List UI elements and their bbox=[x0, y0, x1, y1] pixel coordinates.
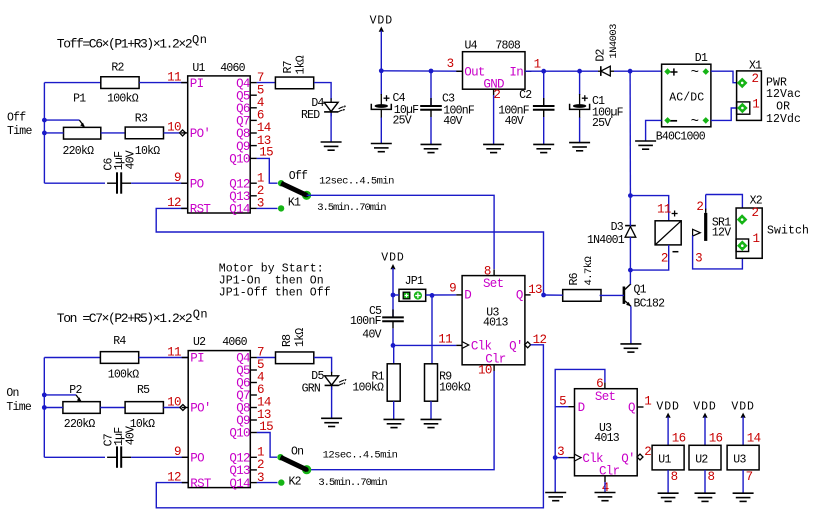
svg-text:3: 3 bbox=[695, 251, 702, 265]
node junction bbox=[541, 293, 546, 298]
svg-text:On: On bbox=[291, 446, 303, 459]
svg-text:14: 14 bbox=[747, 432, 761, 446]
svg-text:10: 10 bbox=[167, 395, 181, 409]
label K2 On bbox=[291, 446, 303, 459]
svg-text:D: D bbox=[464, 289, 471, 303]
wire bbox=[544, 294, 563, 296]
svg-text:C4: C4 bbox=[393, 92, 406, 105]
wire bbox=[579, 118, 581, 143]
label On Time bbox=[6, 387, 31, 414]
svg-text:K2: K2 bbox=[289, 476, 302, 489]
svg-text:VDD: VDD bbox=[656, 401, 679, 414]
svg-text:4013: 4013 bbox=[483, 316, 508, 329]
svg-text:9: 9 bbox=[174, 445, 181, 459]
svg-text:Set: Set bbox=[595, 390, 616, 404]
node junction bbox=[628, 268, 633, 273]
connector X1 bbox=[737, 59, 763, 120]
svg-text:Off: Off bbox=[289, 170, 308, 183]
wire bbox=[393, 344, 456, 346]
svg-text:B40C1000: B40C1000 bbox=[656, 131, 706, 144]
label 3.5min..70min bbox=[318, 477, 387, 489]
svg-text:U4: U4 bbox=[465, 39, 478, 52]
wire bbox=[555, 406, 568, 408]
svg-text:RST: RST bbox=[190, 203, 212, 217]
ground bbox=[321, 142, 342, 150]
svg-text:100nF: 100nF bbox=[350, 315, 382, 328]
wire bbox=[156, 345, 543, 508]
power block U2 (VDD/GND pins) bbox=[689, 401, 723, 502]
diode D2 1N4003 bbox=[595, 24, 621, 76]
wire bbox=[393, 345, 395, 363]
svg-text:11: 11 bbox=[167, 70, 181, 84]
bridge rectifier D1 AC/DC bbox=[662, 52, 711, 130]
ground bbox=[569, 143, 590, 151]
svg-text:JP1-Off then Off: JP1-Off then Off bbox=[219, 287, 331, 300]
relay coil SR1 bbox=[655, 211, 681, 252]
svg-text:10kΩ: 10kΩ bbox=[135, 145, 160, 158]
ground bbox=[533, 144, 554, 152]
svg-text:25V: 25V bbox=[393, 115, 412, 128]
svg-text:BC182: BC182 bbox=[634, 297, 666, 310]
svg-text:12: 12 bbox=[167, 470, 181, 484]
svg-text:4060: 4060 bbox=[222, 336, 247, 349]
svg-text:Q10: Q10 bbox=[229, 427, 250, 441]
svg-text:1: 1 bbox=[534, 57, 541, 71]
wire bbox=[309, 371, 494, 470]
svg-text:Q: Q bbox=[516, 289, 523, 303]
svg-text:C2: C2 bbox=[519, 89, 532, 102]
wire bbox=[630, 245, 668, 270]
wire bbox=[705, 195, 707, 210]
pin numbers SR1 bbox=[695, 200, 703, 265]
wire bbox=[380, 118, 382, 144]
LED D4 bbox=[301, 97, 346, 122]
svg-text:Qn: Qn bbox=[193, 307, 208, 321]
svg-text:RED: RED bbox=[301, 109, 320, 122]
LED D5 bbox=[302, 370, 347, 396]
node junction bbox=[391, 343, 396, 348]
wire bbox=[314, 83, 331, 100]
label K1 bbox=[288, 196, 301, 209]
pin numbers U3b bbox=[557, 377, 651, 495]
power VDD symbol bbox=[370, 15, 393, 71]
svg-text:12Vdc: 12Vdc bbox=[766, 113, 801, 126]
wire bbox=[44, 357, 100, 359]
ground bbox=[421, 144, 442, 152]
svg-text:8: 8 bbox=[484, 264, 491, 278]
wire bbox=[331, 387, 333, 419]
resistor R4 bbox=[100, 335, 139, 382]
svg-text:Qn: Qn bbox=[192, 33, 207, 47]
svg-text:Set: Set bbox=[483, 277, 504, 291]
svg-text:Toff=C6×(P1+R3)×1.2×2: Toff=C6×(P1+R3)×1.2×2 bbox=[57, 37, 192, 52]
svg-text:220kΩ: 220kΩ bbox=[63, 145, 95, 158]
svg-text:U2: U2 bbox=[695, 454, 708, 467]
svg-text:2: 2 bbox=[644, 445, 651, 459]
label K2 bbox=[289, 476, 302, 489]
svg-text:Time: Time bbox=[6, 401, 31, 414]
wire bbox=[706, 195, 743, 216]
ground bbox=[545, 493, 566, 501]
resistor R8 bbox=[276, 328, 314, 364]
wire bbox=[525, 70, 598, 72]
svg-text:16: 16 bbox=[709, 432, 723, 446]
svg-text:1: 1 bbox=[644, 395, 651, 409]
svg-text:Out: Out bbox=[464, 65, 485, 79]
wire bbox=[543, 117, 545, 144]
svg-text:9: 9 bbox=[174, 171, 181, 185]
svg-text:9: 9 bbox=[449, 281, 456, 295]
svg-text:~: ~ bbox=[691, 65, 699, 81]
svg-text:220kΩ: 220kΩ bbox=[64, 418, 96, 431]
svg-text:R4: R4 bbox=[113, 335, 126, 348]
wire bbox=[314, 358, 332, 373]
power block U1 (VDD/GND pins) bbox=[652, 401, 686, 502]
svg-text:25V: 25V bbox=[592, 117, 611, 130]
IC U1 4060 bbox=[181, 62, 257, 217]
svg-text:VDD: VDD bbox=[381, 252, 404, 265]
resistor R5 bbox=[125, 384, 163, 431]
svg-text:U2: U2 bbox=[193, 336, 206, 349]
svg-text:11: 11 bbox=[438, 333, 452, 347]
node junction bbox=[391, 293, 435, 298]
node junction bbox=[628, 193, 633, 198]
svg-text:1N4001: 1N4001 bbox=[587, 234, 625, 247]
pin numbers relay coil bbox=[657, 202, 671, 265]
wire bbox=[44, 182, 105, 184]
svg-text:1: 1 bbox=[752, 98, 759, 112]
svg-text:R3: R3 bbox=[135, 113, 148, 126]
pin PO' diamond (U1 pin 10) bbox=[180, 130, 186, 136]
wire bbox=[600, 294, 624, 296]
flip-flop U3b 4013 bbox=[568, 383, 643, 482]
svg-text:OR: OR bbox=[776, 100, 790, 113]
svg-text:8: 8 bbox=[708, 470, 715, 484]
svg-text:~: ~ bbox=[691, 114, 699, 130]
wire bbox=[430, 117, 432, 144]
wire bbox=[711, 71, 738, 83]
svg-text:2: 2 bbox=[696, 200, 703, 214]
svg-text:15: 15 bbox=[259, 146, 273, 160]
svg-text:8: 8 bbox=[671, 470, 678, 484]
svg-text:D3: D3 bbox=[611, 221, 624, 234]
potentiometer P1 bbox=[63, 93, 101, 158]
svg-text:Q': Q' bbox=[621, 452, 635, 466]
svg-text:Off: Off bbox=[7, 112, 26, 125]
svg-text:Motor by Start:: Motor by Start: bbox=[219, 262, 324, 275]
svg-text:Q: Q bbox=[628, 401, 635, 415]
label 3.5min..70min bbox=[317, 202, 386, 214]
pin PO' diamond (U2 pin 10) bbox=[180, 405, 186, 411]
svg-text:D5: D5 bbox=[311, 370, 324, 383]
svg-text:7: 7 bbox=[746, 470, 753, 484]
capacitor C2 bbox=[498, 71, 554, 128]
label 12sec..4.5min bbox=[319, 175, 394, 187]
power block U3 (VDD/GND pins) bbox=[727, 401, 761, 502]
wire bbox=[493, 95, 495, 144]
svg-text:D: D bbox=[578, 401, 585, 415]
svg-text:PO': PO' bbox=[190, 402, 210, 416]
potentiometer P2 bbox=[63, 384, 100, 431]
svg-text:5: 5 bbox=[559, 395, 566, 409]
svg-text:K1: K1 bbox=[288, 196, 301, 209]
wire bbox=[257, 433, 277, 458]
wire bbox=[426, 294, 457, 296]
relay contact SR1 bbox=[693, 209, 732, 241]
resistor R9 bbox=[425, 364, 471, 401]
svg-text:VDD: VDD bbox=[731, 401, 754, 414]
svg-text:D2: D2 bbox=[595, 48, 608, 61]
svg-text:Q1: Q1 bbox=[634, 283, 647, 296]
svg-text:2: 2 bbox=[752, 206, 759, 220]
IC U2 4060 bbox=[182, 336, 257, 491]
svg-text:Clk: Clk bbox=[471, 339, 492, 353]
power VDD symbol bbox=[381, 252, 404, 296]
wire bbox=[44, 394, 76, 396]
switch K2 bbox=[277, 454, 311, 486]
wire bbox=[307, 195, 495, 269]
label Motor by Start bbox=[219, 262, 331, 299]
svg-text:3: 3 bbox=[557, 445, 564, 459]
node junction bbox=[379, 68, 434, 73]
wire bbox=[163, 407, 180, 409]
svg-text:40V: 40V bbox=[505, 115, 524, 128]
node junction bbox=[42, 393, 47, 410]
svg-text:12sec..4.5min: 12sec..4.5min bbox=[323, 450, 398, 462]
resistor R6 bbox=[563, 256, 601, 301]
svg-text:Time: Time bbox=[7, 125, 32, 138]
resistor R7 bbox=[275, 55, 313, 89]
svg-text:R2: R2 bbox=[111, 62, 124, 75]
svg-text:11: 11 bbox=[167, 345, 181, 359]
wire bbox=[629, 71, 631, 195]
wire bbox=[164, 132, 180, 134]
label 12sec..4.5min bbox=[323, 450, 398, 462]
svg-text:16: 16 bbox=[672, 432, 686, 446]
pin numbers X1 bbox=[752, 72, 760, 111]
node junction bbox=[553, 455, 558, 460]
wire bbox=[101, 132, 125, 134]
wire bbox=[629, 237, 631, 270]
svg-text:PO: PO bbox=[190, 177, 204, 191]
label B40C1000 bbox=[656, 131, 706, 144]
resistor R3 bbox=[125, 113, 163, 158]
svg-text:1: 1 bbox=[753, 232, 760, 246]
connector X2 bbox=[736, 194, 763, 258]
node junction bbox=[628, 69, 633, 74]
wire bbox=[44, 132, 63, 134]
wire bbox=[131, 182, 188, 184]
svg-text:40V: 40V bbox=[443, 115, 462, 128]
wire bbox=[630, 306, 632, 344]
wire bbox=[257, 482, 278, 484]
capacitor C7 bbox=[103, 426, 138, 468]
wire bbox=[257, 357, 276, 359]
wire bbox=[44, 119, 79, 121]
wire bbox=[381, 70, 462, 72]
svg-text:Clk: Clk bbox=[582, 452, 603, 466]
svg-text:3.5min..70min: 3.5min..70min bbox=[317, 202, 386, 214]
wire bbox=[646, 120, 662, 141]
pin numbers U1 bbox=[167, 70, 273, 210]
svg-text:100kΩ: 100kΩ bbox=[439, 381, 471, 394]
svg-text:12V: 12V bbox=[712, 226, 731, 239]
wire bbox=[44, 82, 100, 84]
svg-text:D4: D4 bbox=[311, 97, 324, 110]
label Switch bbox=[767, 224, 809, 237]
node junction bbox=[42, 118, 47, 136]
svg-text:40V: 40V bbox=[125, 150, 138, 169]
svg-text:12Vac: 12Vac bbox=[766, 88, 801, 101]
wire bbox=[100, 407, 125, 409]
svg-text:40V: 40V bbox=[125, 426, 138, 445]
ground bbox=[620, 344, 641, 352]
wire bbox=[629, 270, 631, 284]
svg-text:U3: U3 bbox=[733, 454, 746, 467]
svg-text:100kΩ: 100kΩ bbox=[108, 369, 140, 382]
svg-text:Q10: Q10 bbox=[229, 153, 250, 167]
svg-text:Ton =C7×(P2+R5)×1.2×2: Ton =C7×(P2+R5)×1.2×2 bbox=[57, 311, 192, 326]
svg-text:On: On bbox=[6, 387, 18, 400]
ground bbox=[595, 493, 616, 501]
svg-text:R8: R8 bbox=[281, 334, 294, 347]
svg-text:2: 2 bbox=[661, 252, 668, 266]
formula Toff label bbox=[57, 33, 208, 51]
svg-text:Switch: Switch bbox=[767, 224, 809, 237]
svg-text:10: 10 bbox=[167, 121, 181, 135]
svg-text:3.5min..70min: 3.5min..70min bbox=[318, 477, 387, 489]
svg-text:4013: 4013 bbox=[594, 432, 619, 445]
svg-text:1kΩ: 1kΩ bbox=[295, 55, 308, 74]
wire bbox=[139, 82, 188, 84]
svg-text:13: 13 bbox=[528, 283, 542, 297]
switch K1 bbox=[278, 180, 311, 212]
label Off Time bbox=[7, 112, 32, 138]
svg-text:R7: R7 bbox=[282, 61, 295, 73]
svg-text:4.7kΩ: 4.7kΩ bbox=[583, 256, 595, 285]
ground bbox=[421, 419, 442, 427]
wire bbox=[44, 456, 105, 458]
formula Ton label bbox=[57, 307, 208, 325]
svg-text:Q14: Q14 bbox=[229, 477, 250, 491]
voltage regulator U4 7808 bbox=[456, 39, 531, 95]
svg-text:PO: PO bbox=[190, 452, 204, 466]
svg-text:7808: 7808 bbox=[495, 39, 520, 52]
ground bbox=[384, 419, 405, 427]
svg-text:2: 2 bbox=[493, 88, 500, 102]
ground bbox=[321, 418, 342, 426]
wire bbox=[257, 207, 278, 209]
wire bbox=[330, 113, 332, 142]
resistor R2 bbox=[101, 62, 139, 106]
svg-text:12sec..4.5min: 12sec..4.5min bbox=[319, 175, 394, 187]
jumper JP1 bbox=[399, 275, 426, 301]
svg-text:1kΩ: 1kΩ bbox=[294, 328, 307, 347]
svg-text:In: In bbox=[509, 65, 523, 79]
wire bbox=[629, 196, 631, 226]
ground bbox=[483, 144, 504, 152]
svg-text:Q': Q' bbox=[509, 339, 523, 353]
flip-flop U3a 4013 bbox=[456, 270, 530, 372]
wire bbox=[44, 407, 63, 409]
wire bbox=[431, 295, 433, 363]
svg-text:100kΩ: 100kΩ bbox=[352, 381, 384, 394]
svg-text:3: 3 bbox=[447, 57, 454, 71]
svg-text:PO': PO' bbox=[190, 127, 210, 141]
svg-text:10: 10 bbox=[478, 363, 492, 377]
svg-text:R5: R5 bbox=[137, 384, 150, 397]
pin numbers U4 bbox=[447, 57, 541, 102]
wire bbox=[392, 329, 394, 346]
svg-text:JP1: JP1 bbox=[405, 275, 424, 288]
node junction bbox=[541, 69, 582, 74]
wire bbox=[257, 82, 276, 84]
wire bbox=[43, 358, 45, 458]
label PWR 12Vac OR 12Vdc bbox=[766, 76, 801, 125]
wire bbox=[555, 369, 605, 492]
svg-text:U1: U1 bbox=[192, 62, 205, 75]
ground bbox=[371, 144, 392, 152]
wire bbox=[614, 70, 662, 72]
wire bbox=[555, 457, 568, 459]
svg-text:12: 12 bbox=[167, 196, 181, 210]
capacitor C6 bbox=[103, 150, 138, 194]
label K1 Off bbox=[289, 170, 308, 183]
transistor Q1 BC182 bbox=[624, 283, 665, 310]
svg-text:11: 11 bbox=[657, 202, 671, 216]
svg-text:1N4003: 1N4003 bbox=[608, 24, 620, 59]
svg-text:GRN: GRN bbox=[302, 383, 320, 396]
capacitor C5 bbox=[350, 295, 404, 342]
svg-text:6: 6 bbox=[596, 377, 603, 391]
svg-text:PI: PI bbox=[190, 77, 204, 91]
wire bbox=[131, 456, 188, 458]
svg-text:P1: P1 bbox=[73, 93, 86, 106]
svg-text:Q14: Q14 bbox=[229, 203, 250, 217]
svg-text:VDD: VDD bbox=[370, 15, 393, 28]
svg-text:100kΩ: 100kΩ bbox=[107, 93, 139, 106]
capacitor C4 bbox=[371, 71, 419, 128]
svg-text:X1: X1 bbox=[749, 59, 762, 72]
wire bbox=[711, 108, 738, 120]
svg-text:RST: RST bbox=[190, 477, 212, 491]
wire bbox=[693, 236, 743, 269]
svg-text:U1: U1 bbox=[658, 454, 671, 467]
wire bbox=[43, 83, 45, 184]
capacitor C1 bbox=[570, 71, 624, 130]
wire bbox=[430, 401, 432, 419]
diode D3 1N4001 bbox=[587, 221, 636, 247]
pin numbers X2 bbox=[752, 206, 760, 246]
resistor R1 bbox=[352, 364, 400, 401]
wire bbox=[630, 196, 668, 221]
svg-text:40V: 40V bbox=[362, 329, 381, 342]
svg-text:VDD: VDD bbox=[693, 401, 716, 414]
wire bbox=[139, 357, 189, 359]
svg-text:AC/DC: AC/DC bbox=[669, 91, 704, 104]
wire bbox=[604, 482, 606, 493]
pin numbers U3a bbox=[438, 264, 546, 377]
pin numbers U2 bbox=[167, 345, 273, 485]
svg-text:PI: PI bbox=[190, 352, 204, 366]
svg-text:4060: 4060 bbox=[220, 62, 245, 75]
wire bbox=[156, 208, 543, 295]
ground bbox=[635, 141, 656, 149]
capacitor C3 bbox=[420, 71, 475, 128]
wire bbox=[257, 158, 278, 183]
svg-text:R6: R6 bbox=[568, 272, 581, 285]
svg-text:2: 2 bbox=[752, 72, 759, 86]
